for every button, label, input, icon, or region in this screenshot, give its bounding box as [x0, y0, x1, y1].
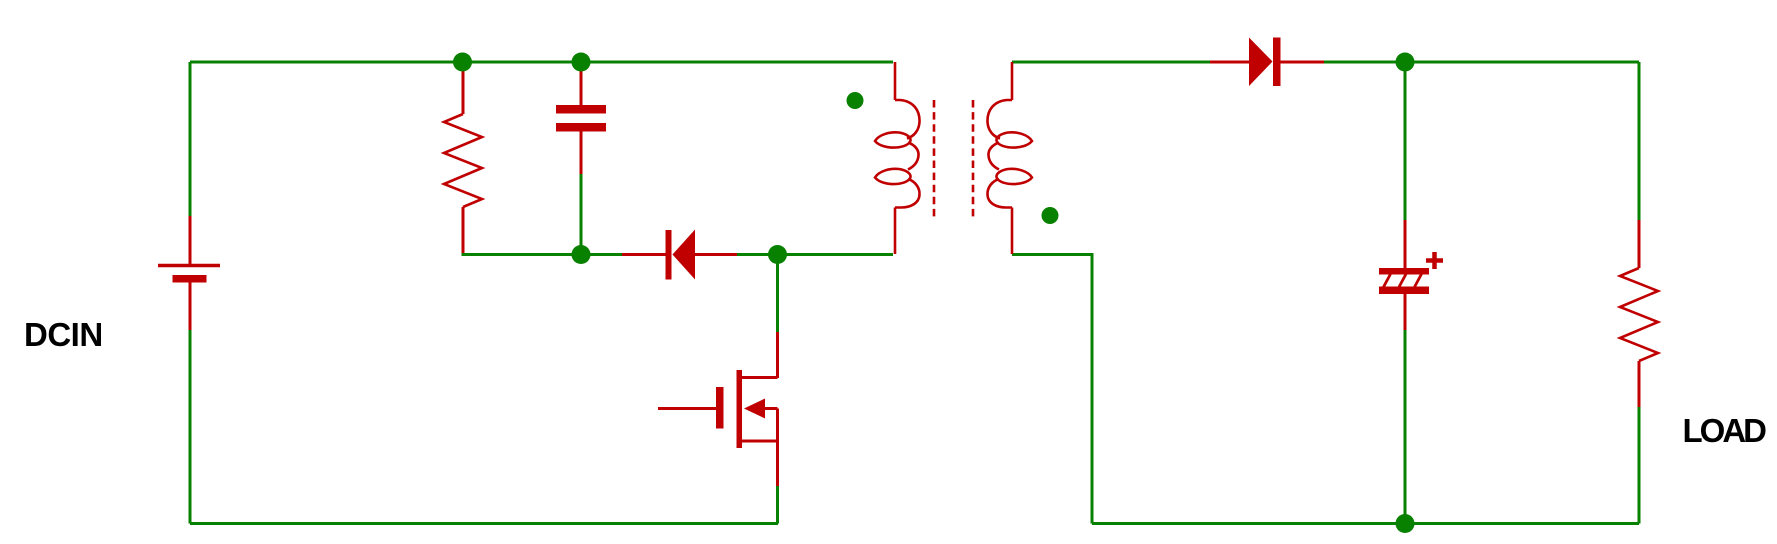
- diode D2 snubber (cathode left): [622, 230, 737, 280]
- mosfet M1 drain contact: [740, 376, 778, 379]
- node junction dot snubber bottom / drain: [768, 245, 787, 264]
- diode D1 output (cathode right): [1210, 38, 1324, 87]
- wire mosfet source to bottom rail: [776, 486, 779, 524]
- transformer secondary L2: [987, 62, 1032, 254]
- wire right rail upper: [1638, 62, 1641, 220]
- node junction dot top rail / C1: [572, 53, 591, 72]
- resistor R1 snubber: [444, 64, 482, 253]
- wire snubber cap lower: [580, 174, 583, 255]
- wire bottom-left rail: [190, 522, 778, 525]
- transformer primary L1: [875, 62, 920, 254]
- mosfet M1 gate bar: [716, 387, 724, 429]
- wire output cap lower: [1404, 330, 1407, 524]
- node junction dot snubber bottom / C1: [572, 245, 591, 264]
- node junction dot output bottom: [1396, 514, 1415, 533]
- mosfet M1 channel bar: [737, 370, 743, 448]
- node junction dot top rail / R1: [453, 53, 472, 72]
- transformer primary phase dot: [847, 92, 864, 109]
- wire left rail lower: [189, 330, 192, 524]
- node junction dot output top: [1396, 53, 1415, 72]
- mosfet M1 body-source link: [776, 409, 779, 442]
- mosfet M1 source contact: [740, 440, 778, 443]
- capacitor C2 plus sign: [1426, 258, 1443, 263]
- capacitor C2 output electrolytic: [1379, 220, 1443, 330]
- mosfet M1 source lead: [776, 441, 779, 486]
- wire secondary bottom: [1012, 255, 1092, 524]
- battery V1: [158, 216, 220, 330]
- wire secondary top: [1012, 61, 1210, 64]
- mosfet M1 drain lead: [776, 332, 779, 378]
- wire snubber bottom left: [463, 251, 622, 255]
- wire top-left rail: [190, 61, 893, 64]
- transformer core: [934, 100, 973, 218]
- resistor R2 load: [1620, 220, 1658, 407]
- wire diode D1 to right: [1324, 61, 1639, 64]
- capacitor C1 snubber: [556, 64, 606, 174]
- svg-text:DCIN: DCIN: [24, 316, 103, 353]
- svg-text:LOAD: LOAD: [1683, 412, 1767, 449]
- wire snubber bottom right: [737, 253, 893, 256]
- wire mosfet drain: [776, 255, 779, 333]
- mosfet M1 body arrow: [744, 399, 765, 419]
- wire bottom-right rail: [1092, 522, 1639, 525]
- transformer secondary phase dot: [1042, 207, 1059, 224]
- wire left rail upper: [189, 62, 192, 217]
- wire right rail lower: [1638, 407, 1641, 524]
- mosfet M1: [658, 332, 778, 486]
- wire output cap upper: [1404, 62, 1407, 220]
- mosfet M1 gate lead: [658, 407, 716, 410]
